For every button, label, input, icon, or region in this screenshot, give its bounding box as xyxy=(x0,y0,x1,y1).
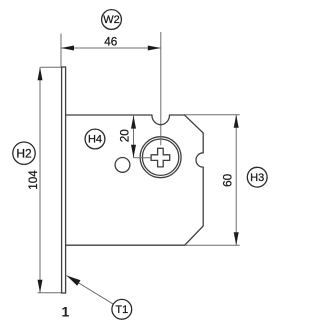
svg-text:1: 1 xyxy=(62,304,70,320)
svg-text:H2: H2 xyxy=(16,146,32,160)
svg-text:104: 104 xyxy=(27,170,40,190)
svg-text:60: 60 xyxy=(221,173,234,187)
svg-text:W2: W2 xyxy=(103,14,120,26)
svg-text:20: 20 xyxy=(118,129,131,143)
svg-text:H3: H3 xyxy=(250,172,264,184)
svg-text:46: 46 xyxy=(104,35,117,48)
svg-text:H4: H4 xyxy=(88,134,102,146)
svg-text:T1: T1 xyxy=(115,304,128,316)
